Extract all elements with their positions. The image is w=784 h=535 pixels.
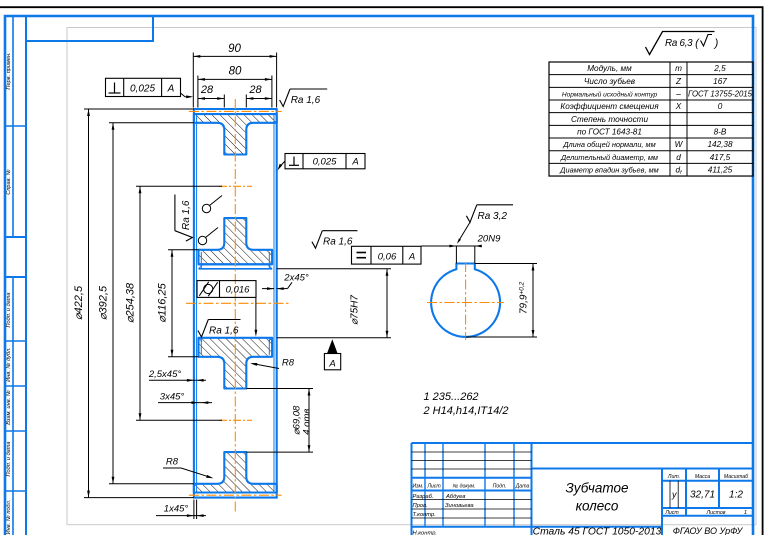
left strip: divider between box 'Perv.primen' and 'Sprav No' [5, 125, 26, 127]
svg-text:колесо: колесо [576, 499, 619, 514]
Lit sub-cells [669, 481, 671, 508]
table row line 8 [549, 162, 753, 164]
svg-text:Инв. № дубл.: Инв. № дубл. [6, 347, 12, 381]
gear axis (horizontal centerline) [186, 302, 290, 304]
svg-text:Масса: Масса [695, 474, 710, 480]
dim &#8960;392,5: extension lines [109, 122, 194, 124]
svg-text:Взам. инв. №: Взам. инв. № [6, 390, 12, 425]
svg-text:80: 80 [229, 66, 242, 78]
0.016 frame leader to bore surface [255, 297, 257, 331]
svg-text:Разраб.: Разраб. [413, 494, 434, 500]
roughness Ra 1.6 on tooth flank (top right) [280, 89, 290, 107]
tolerance frame perpendicularity 0.025 A (right) [285, 154, 365, 169]
gear section hatched areas [194, 114, 277, 154]
dim d69.08: dimension line [308, 389, 310, 453]
svg-text:Степень точности: Степень точности [571, 115, 649, 124]
dim 1x45: extension lines below gear [193, 500, 195, 519]
bore end view circle with keyway [431, 264, 500, 337]
svg-text:Ra 1,6: Ra 1,6 [291, 95, 321, 106]
svg-text:⌀422,5: ⌀422,5 [73, 285, 85, 320]
svg-text:Листов: Листов [706, 510, 726, 516]
title block thin row lines [412, 451, 532, 453]
svg-text:32,71: 32,71 [690, 490, 715, 501]
svg-text:⌀254,38: ⌀254,38 [125, 282, 137, 323]
right frame leader to gear side [280, 161, 286, 167]
svg-text:Лит.: Лит. [667, 474, 680, 480]
svg-text:Подп.: Подп. [493, 484, 507, 490]
tolerance frame perpendicularity 0.025 A (left) [106, 78, 181, 96]
pitch line top [189, 110, 282, 112]
svg-text:2 Н14,h14,IT14/2: 2 Н14,h14,IT14/2 [423, 405, 509, 417]
svg-text:Диаметр впадин зубьев, мм: Диаметр впадин зубьев, мм [559, 165, 658, 174]
roughness Ra 1.6 in bore [198, 320, 208, 338]
svg-text:Ra 6,3: Ra 6,3 [665, 38, 693, 49]
table row line 6 [549, 137, 753, 139]
left strip: lower boxes [12, 277, 14, 535]
svg-text:28: 28 [200, 84, 214, 96]
left strip: upper boxes verticals [12, 16, 14, 237]
dim 79.9: dimension line [532, 264, 534, 338]
svg-text:Н.контр.: Н.контр. [413, 531, 438, 535]
keyway bottom line in bore [199, 263, 273, 265]
svg-text:Инв. № подл.: Инв. № подл. [6, 500, 12, 535]
svg-text:ГОСТ 13755-2015: ГОСТ 13755-2015 [688, 89, 753, 98]
dim &#8960;422,5: extension lines [84, 108, 194, 110]
svg-text:R8: R8 [282, 358, 295, 369]
svg-text:Изм.: Изм. [412, 484, 423, 490]
bore chamfer corner diagonals [199, 265, 203, 269]
left frame leader to 90-extension [181, 93, 192, 97]
svg-text:Пров.: Пров. [413, 503, 428, 509]
svg-text:Ra 1,6: Ra 1,6 [209, 326, 239, 337]
dim 80: dimension line with arrows [198, 78, 272, 80]
dim 79.9+0.2: extension lines [475, 263, 537, 265]
svg-text:Ra 1,6: Ra 1,6 [323, 237, 353, 248]
general roughness Ra 6.3 with bracket [646, 32, 715, 55]
paper top edge [0, 6, 764, 8]
datum A box [324, 354, 340, 370]
tolerance frame cylindricity 0.016 in bore [197, 281, 256, 298]
svg-text:28: 28 [248, 84, 262, 96]
svg-text:1 235...262: 1 235...262 [424, 391, 479, 403]
svg-text:0: 0 [718, 102, 723, 111]
gear side faces [193, 109, 195, 498]
dim 2x45: leader and label [288, 282, 293, 288]
dim &#8960;116,25: extension lines [168, 249, 199, 251]
svg-text:№ докум.: № докум. [453, 484, 476, 490]
svg-text:3х45°: 3х45° [160, 392, 185, 403]
svg-text:X: X [675, 102, 682, 111]
table column lines [669, 62, 671, 176]
svg-text:8-В: 8-В [714, 127, 727, 136]
table row line 4 [549, 112, 753, 114]
svg-text:Длина общей нормали, мм: Длина общей нормали, мм [562, 140, 655, 149]
svg-text:Зиновьева: Зиновьева [445, 503, 474, 509]
dim 20N9: dimension line from tolerance frame [421, 245, 480, 247]
dim 90: extension lines [192, 53, 194, 108]
table row line 2 [549, 86, 753, 88]
svg-text:Лист: Лист [664, 510, 679, 516]
svg-text:Подп. и дата: Подп. и дата [6, 292, 12, 327]
svg-text:А: А [167, 84, 175, 95]
svg-text:411,25: 411,25 [708, 165, 733, 174]
bore top line [199, 268, 273, 270]
left strip: bottom of upper boxes [5, 236, 26, 238]
roughness Ra 3.2 with leader to keyway [466, 205, 476, 223]
top-left document box [26, 16, 153, 41]
svg-text:90: 90 [228, 43, 241, 55]
svg-text:у: у [671, 490, 677, 500]
svg-text:Справ. №: Справ. № [6, 169, 12, 194]
svg-text:Подп. и дата: Подп. и дата [6, 441, 12, 476]
hole centerline bottom [219, 419, 252, 421]
svg-text:Z: Z [675, 77, 682, 86]
svg-text:ФГАОУ ВО УрФУ: ФГАОУ ВО УрФУ [673, 526, 744, 535]
svg-text:Т.контр.: Т.контр. [413, 512, 436, 518]
svg-text:0,025: 0,025 [130, 84, 155, 95]
svg-text:Ra 1,6: Ra 1,6 [181, 200, 192, 230]
svg-text:0,025: 0,025 [313, 157, 337, 168]
table row line 5 [549, 124, 753, 126]
svg-text:R8: R8 [166, 457, 179, 468]
dim d75H7: extension lines [277, 268, 391, 270]
svg-text:m: m [675, 64, 682, 73]
dim 90: dimension line with arrows [193, 55, 276, 57]
svg-text:Число зубьев: Число зубьев [584, 77, 636, 86]
unmachined-surface mark lower recess [198, 236, 206, 244]
svg-text:W: W [675, 140, 684, 149]
paper right edge [762, 7, 764, 535]
table row line 7 [549, 150, 753, 152]
svg-text:417,5: 417,5 [710, 153, 731, 162]
table row line 3 [549, 99, 753, 101]
svg-text:Абдуев: Абдуев [445, 494, 465, 500]
svg-text:А: А [408, 252, 415, 263]
gear tip (outside diameter) lines [193, 108, 278, 110]
svg-text:0,06: 0,06 [378, 252, 397, 263]
svg-text:2х45°: 2х45° [283, 272, 309, 283]
side chamfer lines (2.5x45) [196, 114, 198, 492]
dim 28 left: dimension line [198, 98, 224, 100]
roughness Ra 1.6 near keyway/bore top [312, 231, 322, 249]
svg-text:Перв. примен.: Перв. примен. [6, 52, 12, 89]
unmachined-surface mark upper recess [202, 204, 210, 212]
dim &#8960;254,38: extension lines [136, 185, 222, 187]
pitch line bottom [189, 494, 282, 496]
dim 28 left: extension lines [223, 95, 225, 108]
svg-text:Нормальный исходный контур: Нормальный исходный контур [562, 90, 658, 98]
svg-text:Коэффициент смещения: Коэффициент смещения [560, 102, 659, 111]
svg-text:1:2: 1:2 [729, 490, 743, 501]
svg-text:⌀116,25: ⌀116,25 [157, 282, 169, 322]
gear parameters table frame [549, 62, 753, 176]
dim 2x45 side chamfer: dimension line with outside arrows [262, 288, 274, 290]
svg-text:1х45°: 1х45° [164, 504, 189, 515]
roughness Ra 1.6 on left side face (rotated) [175, 195, 193, 242]
hub chamfer lines (3x45) [200, 252, 202, 269]
tolerance frame symmetry 0.06 A at keyway [352, 246, 422, 264]
vertical centerline of gear [234, 99, 236, 512]
svg-text:⌀392,5: ⌀392,5 [98, 285, 110, 320]
svg-text:Масштаб: Масштаб [724, 474, 749, 480]
svg-text:А: А [328, 359, 335, 370]
svg-text:Дата: Дата [515, 484, 530, 490]
svg-text:Модуль, мм: Модуль, мм [587, 64, 632, 73]
dim &#8960;116,25: dimension line with arrows [171, 250, 173, 357]
hole centerline top [219, 185, 252, 187]
dim d75H7: dimension line [386, 269, 388, 338]
svg-text:2,5: 2,5 [713, 64, 726, 73]
svg-text:142,38: 142,38 [707, 140, 732, 149]
dim d69.08 4 holes: extension lines [246, 388, 313, 390]
title block outer/major lines (blue) [411, 443, 413, 535]
svg-text:–: – [675, 89, 681, 98]
dim &#8960;392,5: dimension line with arrows [112, 123, 114, 484]
dim &#8960;254,38: dimension line with arrows [139, 186, 141, 420]
dim &#8960;422,5: dimension line with arrows [88, 109, 90, 498]
dim 28 right: dimension line [246, 98, 272, 100]
svg-text:2,5х45°: 2,5х45° [148, 369, 182, 380]
svg-text:Зубчатое: Зубчатое [565, 481, 628, 496]
svg-text:167: 167 [713, 77, 727, 86]
svg-text:d: d [676, 153, 681, 162]
end view centerlines [427, 302, 504, 304]
gear section outlines: rim/web/hub contours [194, 114, 277, 154]
title block column verticals [424, 443, 426, 527]
svg-text:⌀75Н7: ⌀75Н7 [350, 295, 361, 325]
table row line 1 [549, 74, 753, 76]
svg-text:А: А [351, 157, 358, 168]
svg-text:по ГОСТ 1643-81: по ГОСТ 1643-81 [577, 127, 642, 136]
svg-text:0,016: 0,016 [226, 285, 250, 296]
dim 20N9: extension lines [455, 246, 457, 264]
datum A triangle on bore extension [327, 339, 338, 353]
svg-text:Сталь 45 ГОСТ 1050-2013: Сталь 45 ГОСТ 1050-2013 [533, 526, 662, 535]
svg-text:1: 1 [744, 510, 747, 516]
svg-text:Ra 3,2: Ra 3,2 [478, 211, 508, 222]
svg-text:20N9: 20N9 [477, 234, 501, 245]
dim 80: extension lines [197, 76, 199, 108]
svg-text:4 отв.: 4 отв. [302, 406, 313, 435]
dim 28 right: extension line [245, 95, 247, 108]
svg-text:Делительный диаметр, мм: Делительный диаметр, мм [560, 153, 658, 162]
svg-text:Лист: Лист [426, 484, 441, 490]
